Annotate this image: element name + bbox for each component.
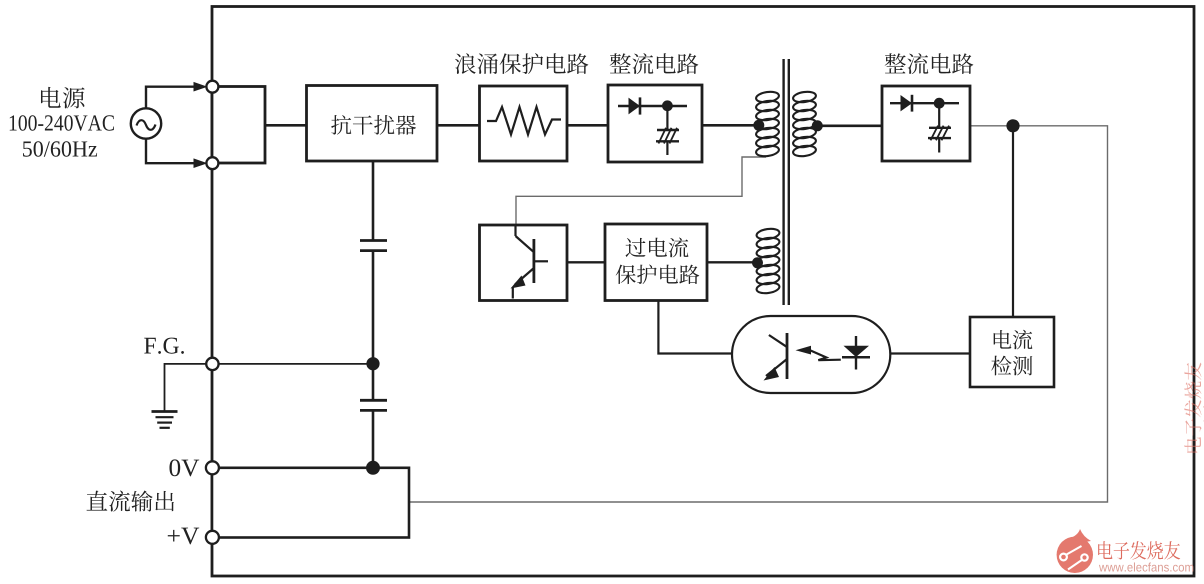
wire: noise filter bottom drop through capacitors x=373 xyxy=(372,161,375,241)
junction dot 0V x373 xyxy=(366,461,380,475)
DC output block xyxy=(212,468,409,538)
watermark logo xyxy=(1057,537,1093,573)
wire: output feedback loop right side and bottom to DC output block xyxy=(409,126,1108,502)
transformer primary winding xyxy=(755,90,779,103)
optocoupler U2 body xyxy=(732,316,890,393)
terminal xyxy=(206,461,219,474)
resistor (surge element) xyxy=(487,107,561,135)
label: power source xyxy=(41,87,61,108)
label: rectifier circuit 1 xyxy=(610,53,631,73)
wire: AC source top lead xyxy=(146,87,196,110)
junction dot output xyxy=(1006,119,1019,132)
capacitor C2 plates xyxy=(360,399,387,402)
surge protector block xyxy=(480,86,568,161)
diode D2 xyxy=(890,102,959,104)
transformer T1 core xyxy=(782,59,784,305)
junction dot in rectifier 1 xyxy=(662,100,673,111)
junction dot primary xyxy=(753,120,764,131)
junction dot F.G. x373 xyxy=(366,357,379,370)
optocoupler light arrow xyxy=(796,346,812,355)
switching transistor block xyxy=(480,225,568,301)
wire: overcurrent block bottom to optocoupler xyxy=(658,301,732,354)
wire: AC source bottom lead xyxy=(146,138,196,163)
transformer auxiliary winding xyxy=(756,227,780,240)
wire: transformer secondary to rectifier 2 xyxy=(816,125,882,128)
wire: rectifier 1 to transformer primary xyxy=(702,124,758,127)
wire: secondary rectifier output to current-detect junction xyxy=(970,125,1013,127)
label: rectifier circuit 2 xyxy=(885,53,906,73)
rectifier block 2 xyxy=(882,86,970,161)
wire: F.G. line xyxy=(212,363,373,365)
filter capacitor (hatched) in rectifier 2 xyxy=(938,103,940,128)
label F.G. xyxy=(144,338,156,354)
diode D1 xyxy=(618,105,687,107)
watermark text xyxy=(1098,541,1180,560)
capacitor C1 plates xyxy=(360,239,387,242)
transistor Q1 xyxy=(514,225,516,236)
wire: primary winding bottom to switching transistor collector xyxy=(516,157,766,226)
junction dot auxiliary xyxy=(752,257,763,268)
rectifier block 1 xyxy=(608,85,702,162)
arrow into bottom input terminal xyxy=(194,158,208,168)
ground symbol xyxy=(152,410,178,413)
noise filter block U1 xyxy=(307,86,438,162)
wire: overcurrent block to auxiliary winding xyxy=(707,261,757,263)
junction dot secondary xyxy=(812,120,823,131)
wire: noise filter to surge protector xyxy=(437,124,480,127)
AC source symbol xyxy=(131,108,161,138)
junction dot in rectifier 2 xyxy=(934,98,945,109)
input terminal block xyxy=(212,87,265,164)
arrow into top input terminal xyxy=(194,82,208,92)
label: DC output xyxy=(87,491,108,511)
label: surge protection circuit xyxy=(455,53,476,74)
optocoupler phototransistor xyxy=(786,333,789,379)
terminal xyxy=(206,157,218,169)
watermark vertical right edge xyxy=(1184,363,1204,453)
wire: transistor base to overcurrent block xyxy=(567,261,605,263)
wire: optocoupler to current detect block xyxy=(890,352,970,354)
enclosure border xyxy=(212,7,1194,577)
label +V xyxy=(168,530,180,542)
terminal xyxy=(206,358,218,370)
wire: input block to noise filter xyxy=(265,124,307,127)
current detect block xyxy=(970,317,1054,387)
terminal xyxy=(206,531,219,544)
filter capacitor (hatched) in rectifier 1 xyxy=(666,106,668,130)
optocoupler LED xyxy=(855,336,857,370)
terminal xyxy=(206,81,218,93)
wire: junction down to current detect block xyxy=(1012,128,1014,317)
overcurrent protection block xyxy=(605,224,707,301)
wire: surge protector to rectifier 1 xyxy=(567,124,608,127)
label 0V xyxy=(169,459,180,476)
transformer secondary winding xyxy=(792,90,816,103)
